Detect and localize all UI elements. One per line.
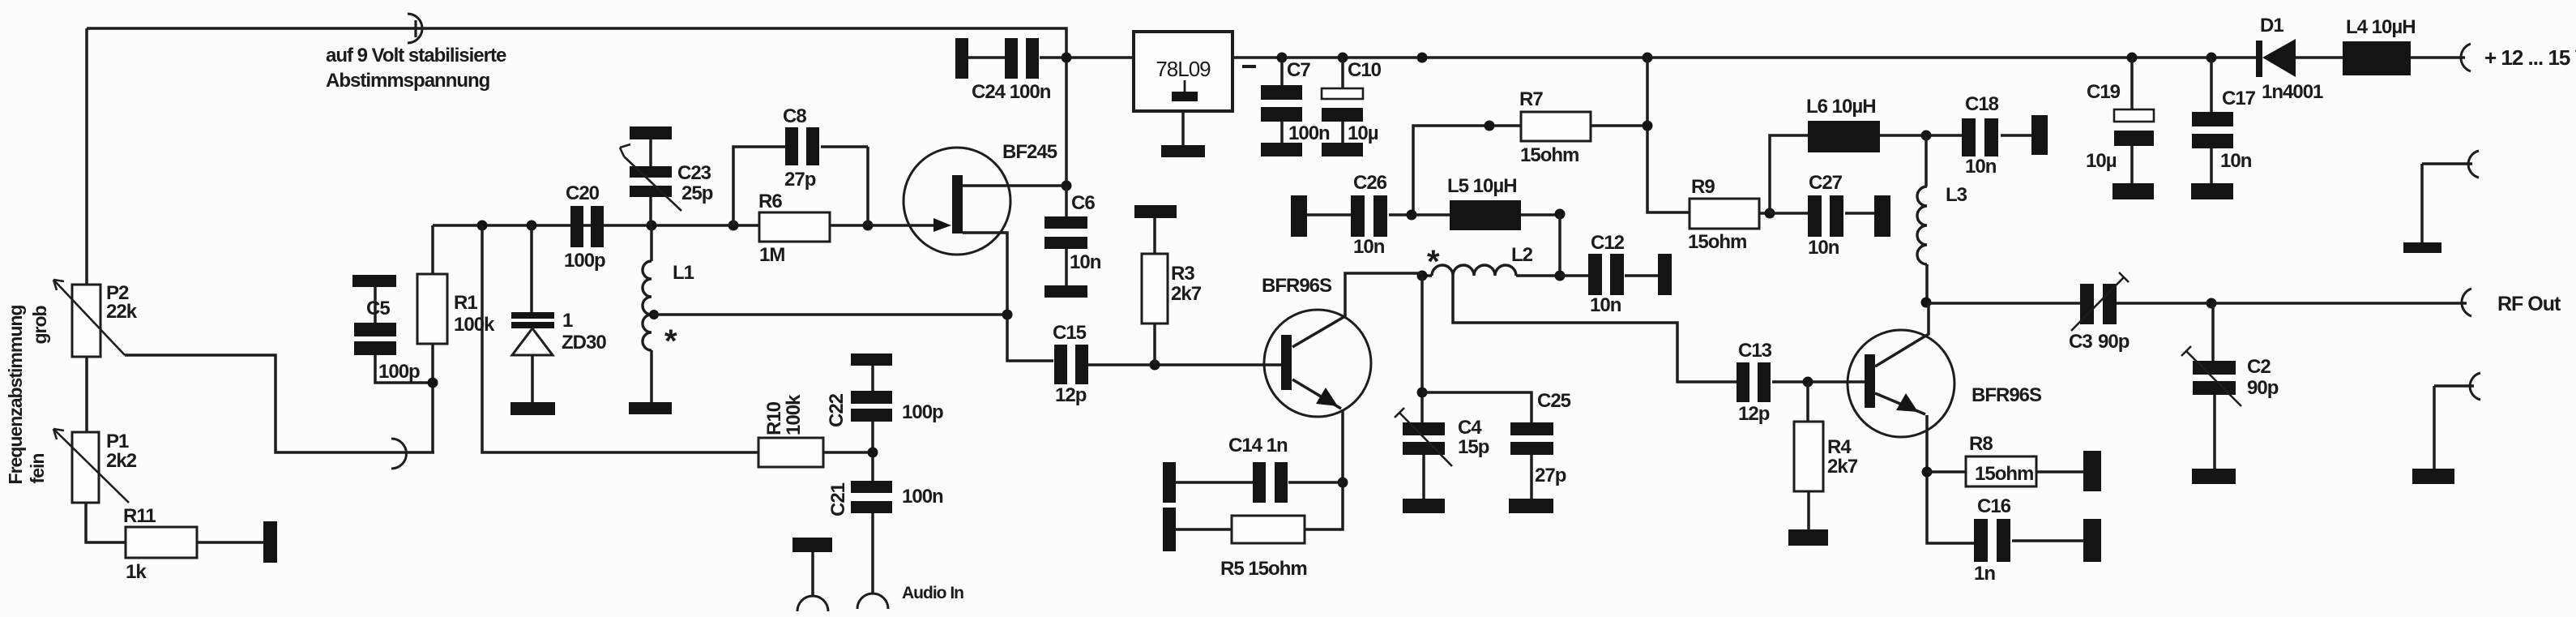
svg-text:1k: 1k <box>126 561 147 583</box>
svg-text:C21: C21 <box>827 482 849 516</box>
svg-text:BF245: BF245 <box>1002 141 1057 163</box>
svg-text:R8: R8 <box>1969 433 1993 455</box>
svg-text:*: * <box>664 323 677 359</box>
svg-text:R1: R1 <box>454 292 477 314</box>
svg-text:C16: C16 <box>1977 495 2011 517</box>
svg-text:10µ: 10µ <box>1348 122 1378 144</box>
svg-text:L4 10µH: L4 10µH <box>2346 16 2416 38</box>
svg-text:C14 1n: C14 1n <box>1228 435 1288 456</box>
svg-text:R6: R6 <box>758 191 782 212</box>
svg-text:100n: 100n <box>902 486 943 508</box>
svg-text:C10: C10 <box>1348 59 1382 81</box>
svg-text:fein: fein <box>27 454 48 484</box>
svg-text:C26: C26 <box>1353 172 1387 194</box>
svg-text:C20: C20 <box>566 182 600 204</box>
svg-text:P1: P1 <box>106 431 129 452</box>
svg-text:78L09: 78L09 <box>1156 57 1211 81</box>
svg-text:C24 100n: C24 100n <box>972 81 1051 103</box>
svg-text:100p: 100p <box>564 250 605 272</box>
svg-text:10µ: 10µ <box>2086 150 2117 172</box>
svg-text:C17: C17 <box>2222 88 2256 109</box>
svg-text:R7: R7 <box>1519 88 1543 110</box>
svg-text:*: * <box>1427 244 1440 280</box>
svg-text:27p: 27p <box>1535 465 1566 486</box>
svg-text:R9: R9 <box>1691 176 1715 198</box>
svg-text:L5 10µH: L5 10µH <box>1447 175 1517 197</box>
svg-text:R11: R11 <box>123 505 156 527</box>
svg-text:12p: 12p <box>1055 384 1087 406</box>
svg-text:C19: C19 <box>2087 81 2121 103</box>
svg-text:R10: R10 <box>763 401 785 435</box>
svg-text:100p: 100p <box>378 361 420 383</box>
svg-text:ZD30: ZD30 <box>562 332 606 353</box>
svg-text:10n: 10n <box>1965 156 1997 178</box>
svg-text:100p: 100p <box>902 401 943 423</box>
svg-text:100k: 100k <box>454 314 495 336</box>
svg-text:27p: 27p <box>784 169 816 191</box>
svg-text:C3: C3 <box>2069 331 2092 353</box>
svg-text:15ohm: 15ohm <box>1975 463 2033 485</box>
svg-text:C5: C5 <box>366 298 390 319</box>
svg-text:2k7: 2k7 <box>1171 283 1202 305</box>
svg-text:12p: 12p <box>1738 403 1770 425</box>
svg-text:R5 15ohm: R5 15ohm <box>1220 558 1307 580</box>
svg-text:100k: 100k <box>783 394 805 435</box>
svg-text:auf 9 Volt stabilisierte: auf 9 Volt stabilisierte <box>326 45 506 66</box>
svg-text:C12: C12 <box>1591 232 1625 254</box>
svg-text:1M: 1M <box>759 244 784 266</box>
svg-text:+ 12 ... 15 V: + 12 ... 15 V <box>2484 45 2576 70</box>
svg-text:10n: 10n <box>1808 237 1839 259</box>
svg-text:2k7: 2k7 <box>1827 456 1858 478</box>
svg-text:Frequenzabstimmung: Frequenzabstimmung <box>5 306 26 485</box>
svg-text:L1: L1 <box>673 262 694 284</box>
svg-text:C13: C13 <box>1738 340 1772 362</box>
svg-text:L6 10µH: L6 10µH <box>1806 96 1876 118</box>
svg-text:1n: 1n <box>1974 563 1995 585</box>
svg-text:1: 1 <box>562 310 573 332</box>
svg-text:RF Out: RF Out <box>2497 293 2561 315</box>
svg-text:10n: 10n <box>1353 236 1385 258</box>
svg-text:C2: C2 <box>2247 356 2271 378</box>
svg-text:22k: 22k <box>106 301 138 323</box>
svg-text:C22: C22 <box>826 393 848 427</box>
svg-text:Audio In: Audio In <box>902 584 963 602</box>
svg-text:90p: 90p <box>2247 377 2279 399</box>
svg-text:100n: 100n <box>1288 122 1330 144</box>
svg-text:C15: C15 <box>1053 322 1087 344</box>
svg-text:L2: L2 <box>1511 244 1533 266</box>
svg-text:C7: C7 <box>1287 59 1310 81</box>
svg-text:C27: C27 <box>1809 172 1843 194</box>
svg-text:grob: grob <box>29 306 50 345</box>
svg-text:C18: C18 <box>1965 93 1999 115</box>
svg-text:BFR96S: BFR96S <box>1262 275 1332 297</box>
svg-text:R4: R4 <box>1827 436 1852 458</box>
svg-text:90p: 90p <box>2098 331 2130 353</box>
svg-text:D1: D1 <box>2260 15 2283 36</box>
svg-text:C25: C25 <box>1537 390 1571 412</box>
svg-text:15ohm: 15ohm <box>1688 231 1746 253</box>
svg-text:10n: 10n <box>1590 294 1621 316</box>
svg-text:1n4001: 1n4001 <box>2262 81 2323 103</box>
svg-text:15ohm: 15ohm <box>1520 144 1578 166</box>
svg-text:C6: C6 <box>1071 192 1095 214</box>
svg-text:2k2: 2k2 <box>106 450 137 472</box>
svg-text:10n: 10n <box>1070 251 1101 273</box>
svg-text:C8: C8 <box>783 105 806 127</box>
svg-text:25p: 25p <box>681 182 713 204</box>
svg-text:L3: L3 <box>1946 184 1967 206</box>
svg-text:R3: R3 <box>1171 263 1194 285</box>
svg-text:BFR96S: BFR96S <box>1972 384 2042 406</box>
svg-text:C23: C23 <box>677 162 711 184</box>
svg-text:C4: C4 <box>1458 417 1482 439</box>
svg-text:Abstimmspannung: Abstimmspannung <box>326 70 490 92</box>
svg-text:10n: 10n <box>2220 150 2252 172</box>
svg-text:15p: 15p <box>1458 436 1489 458</box>
